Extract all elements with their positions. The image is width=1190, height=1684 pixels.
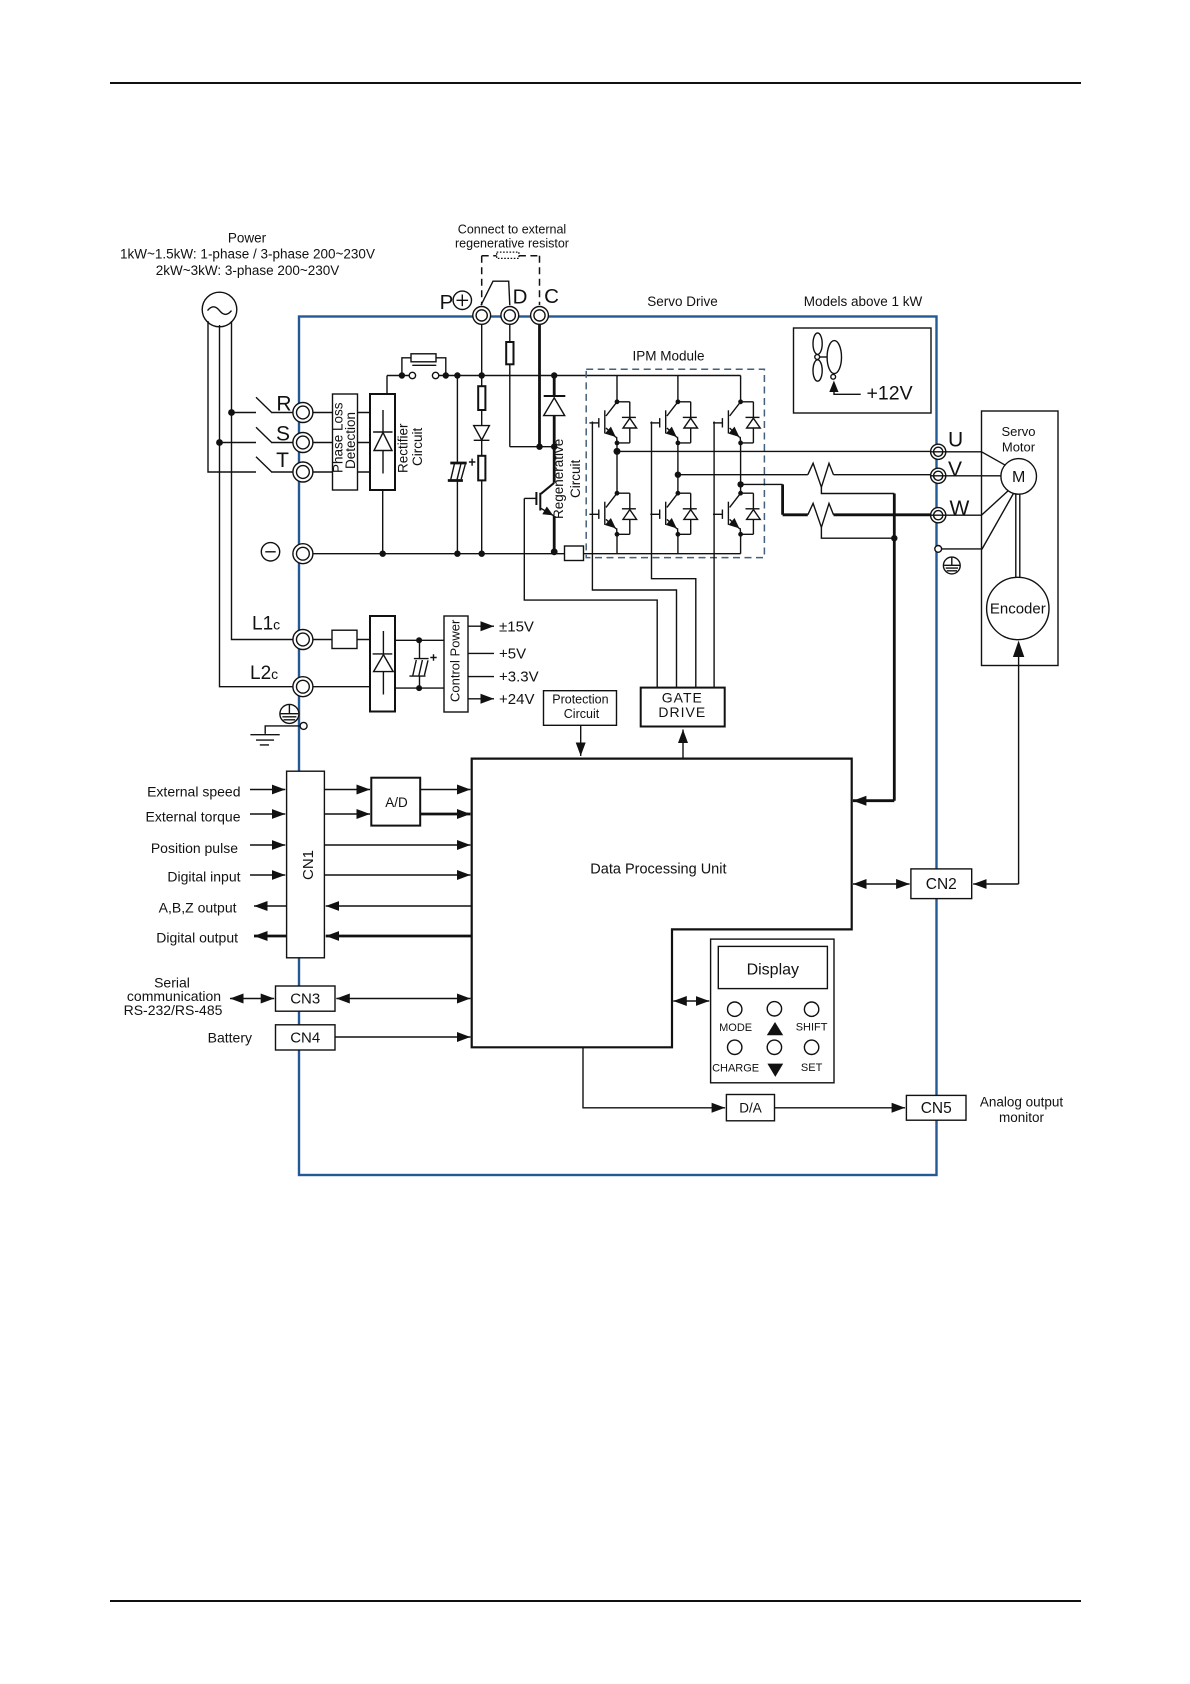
svg-text:L2c: L2c [250,663,278,684]
svg-text:External speed: External speed [147,784,240,800]
svg-text:W: W [950,497,970,520]
svg-text:Servo: Servo [1002,424,1036,439]
svg-text:Data Processing Unit: Data Processing Unit [590,862,726,878]
svg-text:SHIFT: SHIFT [796,1022,828,1034]
svg-text:Control Power: Control Power [448,619,463,702]
svg-text:P: P [440,291,454,314]
svg-text:D/A: D/A [739,1100,762,1115]
svg-text:CHARGE: CHARGE [712,1062,759,1074]
svg-text:C: C [544,285,559,308]
svg-text:Regenerative: Regenerative [551,439,566,519]
svg-text:+5V: +5V [499,646,526,663]
svg-text:External torque: External torque [146,809,241,825]
svg-text:Protection: Protection [552,693,608,707]
svg-text:M: M [1012,469,1025,486]
svg-text:Encoder: Encoder [990,601,1046,618]
svg-text:Digital input: Digital input [167,869,240,885]
svg-text:CN3: CN3 [290,991,320,1008]
svg-text:Connect to external: Connect to external [458,223,566,237]
svg-text:Circuit: Circuit [564,707,600,721]
svg-text:S: S [276,423,290,446]
svg-text:A,B,Z output: A,B,Z output [159,900,237,916]
svg-text:2kW~3kW: 3-phase 200~230V: 2kW~3kW: 3-phase 200~230V [156,263,340,278]
svg-text:IPM Module: IPM Module [632,349,704,364]
svg-text:T: T [276,449,289,472]
svg-text:Power: Power [228,231,267,246]
svg-text:Analog output: Analog output [980,1095,1064,1110]
svg-text:+3.3V: +3.3V [499,669,539,686]
svg-text:Display: Display [747,961,799,978]
svg-text:D: D [513,286,528,309]
svg-text:Rectifier: Rectifier [396,423,411,473]
svg-text:Motor: Motor [1002,440,1036,455]
svg-text:Circuit: Circuit [410,427,425,466]
svg-text:+12V: +12V [867,383,913,405]
svg-text:+24V: +24V [499,691,534,708]
svg-text:V: V [948,458,962,481]
svg-text:MODE: MODE [719,1022,752,1034]
svg-text:Servo Drive: Servo Drive [647,294,718,309]
svg-text:Circuit: Circuit [568,459,583,498]
svg-text:Battery: Battery [208,1030,252,1046]
svg-text:1kW~1.5kW: 1-phase / 3-phase 2: 1kW~1.5kW: 1-phase / 3-phase 200~230V [120,247,375,262]
svg-text:CN5: CN5 [921,1100,952,1117]
svg-text:monitor: monitor [999,1110,1045,1125]
svg-text:L1c: L1c [252,614,280,635]
svg-text:±15V: ±15V [499,619,534,636]
svg-text:R: R [276,393,291,416]
svg-text:DRIVE: DRIVE [658,704,706,720]
svg-text:Models above 1 kW: Models above 1 kW [804,294,923,309]
svg-text:SET: SET [801,1062,823,1074]
svg-text:U: U [948,429,963,452]
svg-text:CN4: CN4 [290,1029,320,1046]
svg-text:CN2: CN2 [926,876,957,893]
svg-text:A/D: A/D [385,795,408,810]
svg-text:CN1: CN1 [300,850,317,880]
svg-text:Digital output: Digital output [156,930,238,946]
svg-text:RS-232/RS-485: RS-232/RS-485 [124,1002,223,1018]
svg-text:regenerative resistor: regenerative resistor [455,237,569,251]
svg-text:Position pulse: Position pulse [151,840,238,856]
svg-text:Detection: Detection [343,412,358,469]
